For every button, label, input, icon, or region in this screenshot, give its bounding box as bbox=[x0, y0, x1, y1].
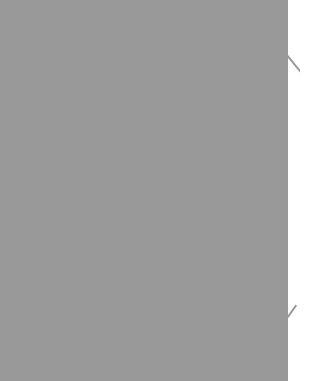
wire (lower-right diagonal segment) bbox=[288, 306, 296, 317]
wire (top-right diagonal segment) bbox=[288, 56, 301, 72]
